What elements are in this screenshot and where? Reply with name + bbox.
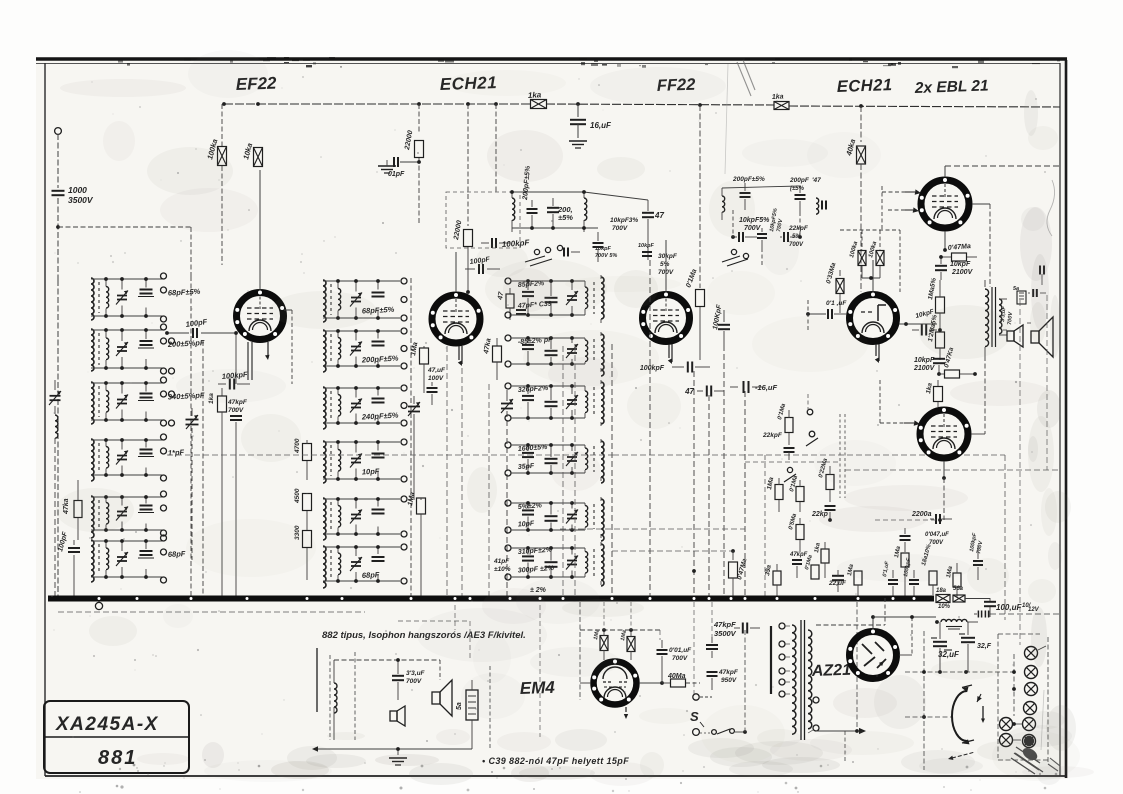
svg-text:200pF: 200pF [789, 177, 810, 184]
capacitor 100kpF AF [903, 557, 919, 597]
svg-text:1ka: 1ka [772, 93, 784, 101]
resistor EM4 right [620, 630, 635, 660]
capacitor 30kpF 5% 700V [638, 243, 678, 276]
dial lamp 6 [1000, 718, 1013, 731]
label 1*pF [168, 448, 185, 458]
label 33uF 700V speaker [1000, 305, 1014, 325]
resistor 3300 [294, 525, 312, 580]
aerial coil transformer row 5 [91, 495, 163, 538]
coil det 1 [722, 188, 725, 220]
resistor 1M ohm to bus [407, 492, 425, 597]
resistor 1M ohm out1 [894, 545, 909, 597]
oscillator coil transformer row 6 [323, 545, 400, 588]
dial drive detail [948, 694, 985, 760]
resistor 22000 ECH21 grid [453, 104, 473, 294]
svg-text:700V: 700V [672, 655, 688, 662]
label 68pF+5% bank2 [362, 305, 395, 316]
wire 16uF drop [744, 391, 746, 597]
label 10kpF rotated det [769, 208, 784, 233]
svg-text:1000: 1000 [68, 185, 87, 195]
dial lamp 7 [1000, 734, 1022, 747]
capacitor 10kpF 2100V lower [913, 357, 945, 376]
capacitor 22uF cathode [828, 570, 847, 592]
wire EBL21 V6 cathode down [943, 478, 945, 520]
capacitor 47 FF22 [684, 386, 724, 397]
wire antenna to band switch [58, 227, 191, 276]
capacitor 22kpF AF [762, 432, 795, 460]
label 340+5%pF [168, 391, 205, 402]
wire AVC long horizontal [167, 454, 613, 456]
IF filter row 1 [505, 275, 604, 323]
svg-text:±5%: ±5% [558, 213, 573, 222]
label +-2% bottom [530, 587, 547, 594]
wire osc to bus [649, 260, 651, 597]
svg-text:10pF: 10pF [518, 520, 536, 528]
IF filter row 2 [505, 332, 604, 376]
label 1600±5% [518, 444, 549, 453]
band switch contacts left bank row 1 [161, 273, 167, 322]
capacitor 100uF 10 12V [984, 598, 1040, 617]
band switch contacts bank2 row 1 [401, 278, 407, 321]
wire right cluster horizontals [845, 470, 1060, 522]
svg-text:'47: '47 [812, 177, 821, 184]
IF filter row 6 [505, 542, 604, 586]
svg-text:2x EBL 21: 2x EBL 21 [914, 77, 989, 97]
wire right vertical 1 [1019, 300, 1021, 645]
svg-text:30kpF: 30kpF [658, 253, 678, 260]
label 300pF ±2% [518, 565, 555, 575]
vacuum tube EM4 [592, 660, 637, 720]
capacitor 10kpF3% 700V [593, 217, 639, 262]
label 01uF V4 [826, 300, 847, 307]
resistor 05M ohm [788, 512, 804, 552]
capacitor 22kp vol [811, 506, 836, 522]
aerial coil transformer row 1 [91, 277, 163, 320]
wire mid horizontal 549 [612, 549, 735, 553]
wire AF cluster drops [745, 394, 840, 597]
border frame left line [44, 63, 46, 776]
svg-text:5a: 5a [1013, 286, 1019, 292]
oscillator coil transformer row 1 [323, 279, 400, 322]
oscillator coil transformer row 2 [323, 329, 400, 372]
wire left bank switch bus [191, 276, 203, 597]
svg-text:10kpF3%: 10kpF3% [610, 217, 638, 224]
capacitor 33uF 700V option [392, 660, 426, 700]
svg-text:18a: 18a [936, 588, 947, 594]
switch contact AF [784, 467, 796, 482]
resistor 56 ohm on bus [953, 586, 990, 602]
label footnote [482, 756, 629, 766]
wire option bottom [312, 660, 490, 752]
dial lamp 8 dark [1023, 735, 1036, 748]
oscillator padder trimmer [186, 408, 199, 560]
svg-text:950V: 950V [721, 677, 737, 684]
wire osc tank top [496, 104, 648, 200]
svg-text:22kpF: 22kpF [762, 432, 783, 439]
band switch contacts left bank row 5 [161, 491, 167, 536]
svg-text:700V: 700V [406, 678, 422, 685]
resistor 39 ohm [764, 564, 781, 597]
band switch contacts bank2 row 3 [401, 385, 407, 426]
trimmer padder ECH21 [408, 396, 420, 500]
svg-text:47,uF: 47,uF [427, 367, 446, 374]
svg-text:32,uF: 32,uF [938, 650, 960, 659]
capacitor 100kpF osc [481, 238, 531, 249]
dial lamp 2 [1025, 666, 1038, 679]
border frame right line [1060, 60, 1066, 778]
antenna terminal [55, 128, 62, 135]
power transformer screen bar [770, 626, 772, 694]
vacuum tube EBL21 V6 [919, 398, 969, 480]
band switch contacts bank2 row 2 [401, 328, 407, 369]
svg-text:100V: 100V [428, 375, 444, 382]
resistor 40M ohm [662, 673, 700, 687]
resistor 100k ohm avc1 [849, 240, 866, 265]
wire EBL21 V6 plate [971, 356, 985, 434]
band switch contacts left bank row 6 [161, 535, 167, 583]
capacitor 1000pF 3500V antenna [52, 191, 65, 195]
capacitor 200pF 47 det [789, 177, 821, 212]
label ECH21 second [837, 76, 893, 96]
label 10pF bank2 [362, 467, 380, 477]
resistor 1k ohm AF [814, 542, 829, 578]
resistor 1M ohm AF3 [847, 563, 862, 597]
oscillator coil transformer row 3 [323, 386, 400, 429]
vacuum tube ECH21 V4 [848, 260, 897, 363]
wire right vertical 2 [1046, 295, 1048, 470]
svg-text:3500V: 3500V [68, 195, 94, 205]
resistor 1k ohm EBL2 grid [925, 380, 942, 407]
band switch middle contacts [525, 245, 617, 266]
title block text XA245A-X [55, 714, 159, 735]
label S switch [690, 709, 704, 727]
vacuum tube EBL21 V5 [920, 166, 1060, 252]
label 68pF [168, 549, 186, 559]
phono contacts [806, 409, 818, 446]
svg-text:2100V: 2100V [913, 365, 936, 372]
filter line [873, 615, 939, 624]
resistor EM4 left [593, 629, 608, 660]
coil left edge [55, 415, 58, 597]
det switch contacts [722, 249, 749, 266]
svg-text:700V 5%: 700V 5% [595, 253, 617, 259]
capacitor 0047uF 700V [900, 528, 950, 552]
IF filter row 4 [505, 439, 604, 483]
svg-text:-16,uF: -16,uF [755, 383, 778, 392]
coil det 2 [816, 198, 826, 214]
svg-text:5%: 5% [660, 261, 670, 268]
wire filter to lamps [905, 631, 1014, 770]
capacitor 200pF +-5% padder [547, 198, 573, 228]
dial lamp 4 [1024, 702, 1037, 715]
label 5%±2% [518, 502, 543, 511]
capacitor 32uF b [959, 622, 992, 672]
resistor 2200 ohm [911, 511, 952, 524]
resistor 47k ohm mixer [483, 338, 502, 380]
wire ECH21 cathode to bus [447, 346, 462, 597]
wire V4 plate out [899, 322, 937, 326]
label 85pF2% [518, 280, 546, 289]
label 41pF+-10% [493, 558, 511, 573]
title block box [44, 701, 189, 773]
vacuum tube AZ21 [848, 615, 897, 678]
wire cathode drop [708, 395, 710, 597]
capacitor 200pF 5% det [732, 176, 765, 210]
vacuum tube EF22 V1 [235, 170, 292, 384]
svg-text:10kpF: 10kpF [950, 261, 971, 268]
aerial coil transformer row 6 [91, 539, 163, 582]
terminal above S [693, 694, 712, 700]
label -85±2% pF [518, 337, 554, 346]
resistor 5 ohm option [456, 680, 478, 740]
output transformer [985, 280, 1007, 356]
svg-text:41pF: 41pF [493, 558, 510, 565]
power transformer primary taps [779, 623, 790, 697]
oscillator coil transformer row 5 [323, 497, 400, 540]
capacitor speaker 2 [1040, 266, 1044, 286]
capacitor 100kpF 700V out [969, 532, 984, 580]
svg-text:68pF: 68pF [362, 570, 380, 580]
svg-text:10kpF: 10kpF [638, 243, 655, 249]
resistor 047M ohm top right [939, 243, 977, 261]
svg-text:2100V: 2100V [951, 269, 974, 276]
wire osc tank bottom [512, 226, 598, 230]
svg-text:700V: 700V [228, 407, 244, 414]
svg-text:XA245A-X: XA245A-X [55, 714, 159, 735]
resistor 4700 [294, 438, 312, 480]
corner scribbles [1011, 745, 1060, 774]
vacuum tube ECH21 V2 [431, 252, 481, 366]
label 68pF+5% [168, 287, 201, 298]
svg-text:47: 47 [654, 211, 664, 220]
IF filter row 5 [505, 497, 604, 541]
capacitor 16uF cathode [730, 381, 778, 393]
oscillator coil transformer row 4 [323, 440, 400, 483]
speaker large [1027, 317, 1053, 357]
wire EBL21 V5 outputs [972, 204, 990, 287]
svg-text:5a: 5a [456, 702, 463, 710]
wire V4 top feeds [840, 230, 900, 292]
capacitor 001uF 700V [657, 640, 693, 662]
ground for 16uF [569, 141, 587, 148]
variable capacitor left edge [49, 380, 61, 414]
svg-text:47kpF: 47kpF [713, 620, 736, 629]
svg-text:16,uF: 16,uF [590, 121, 612, 130]
label 10kpF5% 700V [739, 217, 770, 232]
capacitor 47kpF 950V [707, 669, 739, 690]
wire transformer bottom lead [816, 728, 866, 762]
label 882 tipus [322, 630, 526, 641]
capacitor 100pF left edge [57, 530, 80, 597]
grid arrow EBL21 V6 [880, 380, 920, 426]
option ground [389, 749, 407, 765]
label 200pF+5% bank2 [361, 354, 399, 365]
resistor 40k ohm V4 [844, 106, 866, 292]
resistor 10k ohm plate [241, 142, 262, 166]
label 35pF [518, 463, 536, 471]
dial lamp 1 [1025, 646, 1047, 660]
svg-text:68pF±5%: 68pF±5% [168, 287, 201, 298]
resistor 18 ohm 10% [921, 543, 937, 595]
border frame outer top line [36, 59, 1067, 64]
wire bank2 switch bus [410, 278, 412, 597]
capacitor 10kpF V4 plate [912, 308, 937, 335]
resistor 100k ohm avc2 [862, 240, 884, 280]
oscillator coil L2 [584, 192, 587, 232]
capacitor 100uF series pair [974, 611, 1060, 618]
wire AZ21 output [899, 617, 912, 655]
label 200+5%pF [167, 338, 205, 349]
resistor 12M ohm 5% V4 [927, 314, 944, 360]
aerial coil transformer row 3 [91, 381, 163, 424]
capacitor 32uF a [931, 622, 960, 672]
speaker option small [390, 700, 405, 726]
svg-text:ECH21: ECH21 [837, 76, 893, 96]
mains switch [693, 630, 747, 735]
wire mixer cap to bus [488, 384, 490, 597]
capacitor mains mid [706, 637, 718, 658]
resistor 18 ohm on bus [936, 588, 951, 610]
svg-text:3'3,uF: 3'3,uF [406, 670, 426, 677]
label 2x EBL21 [914, 77, 989, 97]
label 326pF2% [518, 385, 550, 394]
speaker option large [432, 680, 452, 716]
resistor 01M ohm AF2 [804, 554, 819, 579]
capacitor 200pF osc tank [527, 200, 538, 228]
label 200pF+5% rotated [522, 165, 532, 201]
band switch contacts left bank row 2 [161, 324, 175, 374]
label FF22 [657, 76, 696, 95]
power transformer secondary winding [808, 630, 812, 729]
capacitor 47kpF 3500V [713, 620, 760, 638]
label ECH21 first [439, 73, 497, 94]
svg-text:0'1 ,uF: 0'1 ,uF [826, 300, 847, 307]
label 240pF+5% bank2 [361, 411, 399, 422]
resistor 1k ohm on rail [528, 90, 547, 108]
capacitor 100kpF FF22 screen [712, 304, 730, 345]
wire AF line horizontal [613, 455, 1005, 620]
capacitor 01uF with ground [378, 157, 421, 178]
trimmer padder mixer [501, 390, 513, 597]
wire transformer top lead [816, 598, 885, 625]
svg-text:(±5%: (±5% [790, 186, 805, 192]
power transformer secondary taps [808, 697, 819, 733]
grid arrows EBL21 V5 [882, 186, 921, 230]
resistor 4500 [294, 488, 312, 530]
svg-text:4500: 4500 [294, 488, 301, 504]
resistor 22000 screen ECH21 [404, 104, 424, 225]
paper speckles [51, 76, 1046, 768]
label 47pF* C39 [517, 301, 552, 310]
resistor 100k ohm screen [205, 104, 226, 265]
title block text 881 [98, 747, 137, 769]
lamp wiring box [998, 634, 1048, 762]
IF filter row 3 [505, 380, 604, 426]
resistor 1k ohm EF22 [208, 388, 227, 597]
resistor 1M ohm out2 [946, 563, 961, 597]
band switch contacts left bank row 3 [161, 377, 175, 426]
resistor 01M ohm AF top [777, 402, 793, 445]
resistor 47 mixer [497, 288, 526, 320]
speaker small [1003, 325, 1023, 347]
wire mid horizontal 525 [560, 528, 745, 530]
capacitor 100kpF FF22 cathode [640, 362, 710, 373]
label 1000 3500V [68, 185, 94, 205]
vacuum tube EF22 V3 [641, 240, 690, 364]
svg-text:10%: 10% [938, 604, 951, 610]
label 68pF bank2 [362, 570, 380, 580]
svg-text:32,F: 32,F [977, 643, 992, 650]
resistor 1M ohm osc grid [410, 342, 428, 393]
band switch contacts bank2 row 6 [401, 544, 407, 584]
resistor 1k ohm on rail right [772, 93, 789, 109]
wire V3 plate drop [611, 344, 613, 597]
svg-text:35pF: 35pF [518, 463, 536, 471]
label EF22 [235, 74, 277, 94]
capacitor 100kpF EF22 cathode [218, 370, 250, 390]
power transformer primary winding [792, 625, 796, 734]
power transformer core [801, 620, 805, 740]
svg-text:10pF: 10pF [362, 467, 380, 477]
wire top HT rail [222, 102, 1060, 108]
volume pot dashed box [840, 414, 845, 498]
option circuit frame [317, 648, 330, 740]
label EM4 [519, 678, 555, 698]
band switch contacts left bank row 4 [161, 434, 167, 481]
resistor 1M ohm vol [766, 476, 783, 512]
wire det cluster [722, 186, 800, 265]
svg-text:10kpF: 10kpF [595, 246, 612, 252]
svg-text:3500V: 3500V [714, 629, 737, 638]
resistor 01M ohm vol [789, 474, 804, 512]
svg-text:47: 47 [684, 387, 694, 396]
capacitor 47kpF 700V EF22 [227, 399, 248, 597]
aerial coil transformer row 4 [91, 438, 163, 481]
capacitor 16uF decoupling [570, 104, 612, 138]
svg-text:10kpF: 10kpF [914, 357, 935, 364]
svg-text:100,uF: 100,uF [996, 603, 1022, 612]
band switch contacts bank2 row 4 [401, 439, 407, 482]
aerial coil transformer row 2 [91, 328, 163, 371]
capacitor 47 osc [642, 200, 664, 260]
border frame bottom line [45, 775, 1066, 777]
svg-text:47kpF: 47kpF [718, 669, 739, 676]
capacitor 100pF grid [165, 317, 234, 338]
dial lamp 5 [1012, 718, 1035, 731]
resistor 047M ohm lower [939, 346, 977, 378]
dial lamp 3 [1025, 683, 1038, 696]
label 10pF [518, 520, 536, 528]
wire below-bus verticals right [604, 602, 712, 694]
oscillator coil L1 [512, 192, 515, 232]
capacitor 47kpF AF [789, 552, 808, 578]
svg-text:±10%: ±10% [494, 566, 511, 573]
svg-text:0'047,uF: 0'047,uF [925, 532, 949, 538]
wire HT centre tap [856, 602, 858, 729]
filter choke [941, 619, 978, 629]
label 310pF±2% [518, 547, 553, 556]
capacitor speaker top [1028, 289, 1046, 297]
svg-text:01pF: 01pF [388, 171, 405, 178]
wire EM4 grid [639, 660, 664, 685]
svg-text:40Ma: 40Ma [667, 673, 686, 680]
svg-text:0'01,uF: 0'01,uF [669, 647, 692, 654]
wire EF22 plate row [234, 331, 238, 384]
svg-text:AZ21: AZ21 [811, 662, 852, 680]
bus terminal circle [95, 601, 102, 610]
svg-text:68pF: 68pF [168, 549, 186, 559]
wire screen drop [692, 371, 696, 597]
